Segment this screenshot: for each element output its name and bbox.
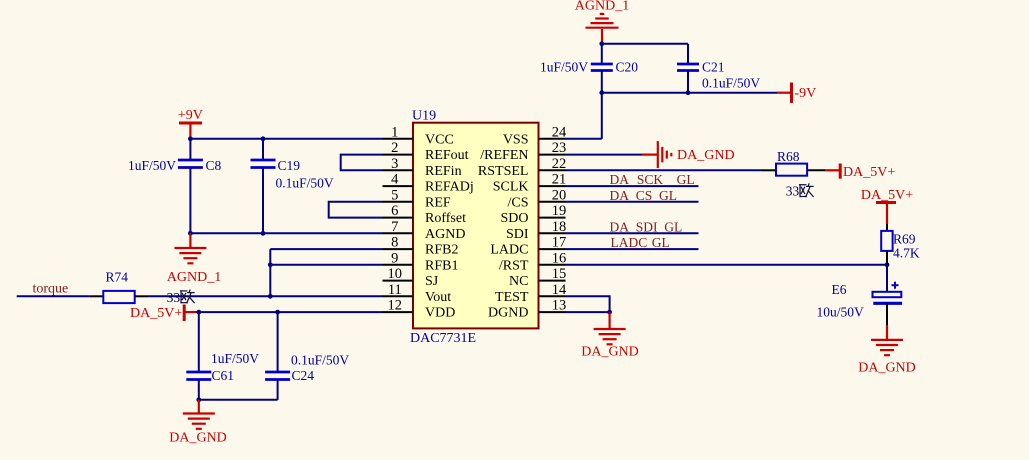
wire E6 top — [886, 265, 888, 292]
wire C61 top — [198, 312, 200, 372]
svg-text:DA_5V+: DA_5V+ — [130, 306, 182, 321]
svg-text:20: 20 — [552, 187, 567, 203]
svg-text:C61: C61 — [212, 368, 235, 383]
svg-text:19: 19 — [552, 203, 567, 219]
pin 8 stub — [383, 248, 414, 250]
wire C24 bottom — [277, 380, 279, 400]
svg-text:DGND: DGND — [488, 306, 528, 321]
node Vout junction — [268, 294, 273, 299]
pin 20 stub — [539, 201, 566, 203]
pin 18 stub — [539, 232, 566, 234]
ground DA_GND (bottom left) — [183, 414, 215, 429]
svg-text:LADC GL: LADC GL — [611, 235, 670, 250]
svg-text:12: 12 — [388, 298, 403, 314]
svg-text:15: 15 — [552, 266, 567, 282]
svg-text:R74: R74 — [106, 270, 129, 285]
wire top rail — [602, 43, 688, 45]
svg-text:24: 24 — [552, 124, 567, 140]
svg-text:SCLK: SCLK — [493, 180, 529, 195]
node C24 top junction — [275, 310, 280, 315]
svg-text:DA SDI GL: DA SDI GL — [610, 219, 683, 234]
svg-text:0.1uF/50V: 0.1uF/50V — [291, 353, 349, 368]
wire C61-C24 bottom rail — [199, 399, 278, 401]
svg-text:VCC: VCC — [425, 132, 454, 147]
wire pin20 CS — [566, 201, 699, 203]
svg-text:DA_GND: DA_GND — [858, 360, 916, 375]
wire C8 bottom — [189, 168, 191, 234]
svg-text:0.1uF/50V: 0.1uF/50V — [276, 176, 334, 191]
wire DGND stub — [608, 312, 610, 328]
svg-text:4: 4 — [391, 172, 399, 188]
svg-text:DA_5V+: DA_5V+ — [861, 188, 913, 203]
svg-text:LADC: LADC — [490, 243, 528, 258]
svg-text:-9V: -9V — [795, 86, 817, 101]
pin 6 stub — [383, 217, 414, 219]
svg-text:5: 5 — [391, 187, 398, 203]
R68 value 33ohm — [786, 183, 813, 198]
wire torque input — [17, 295, 90, 297]
svg-text:13: 13 — [552, 298, 567, 314]
svg-text:AGND_1: AGND_1 — [167, 270, 221, 285]
svg-text:REF: REF — [425, 195, 451, 210]
node C21 bottom junction — [686, 90, 691, 95]
wire C20 top — [601, 44, 603, 64]
svg-text:22: 22 — [552, 156, 567, 172]
pin 15 stub — [539, 280, 566, 282]
svg-text:DA CS GL: DA CS GL — [610, 188, 678, 203]
svg-text:C8: C8 — [206, 158, 222, 173]
op-amp U19 (DAC7731E IC body) — [413, 123, 539, 329]
power -9V bar — [777, 83, 792, 103]
R74 value 33ohm — [167, 290, 195, 305]
power DA_5V+ bar (pin12) — [184, 305, 199, 322]
wire pin23 red stub — [642, 154, 658, 156]
wire REFout-REFin loop — [341, 155, 383, 171]
svg-text:1uF/50V: 1uF/50V — [540, 60, 588, 75]
svg-text:SDO: SDO — [500, 211, 528, 226]
svg-text:21: 21 — [552, 172, 567, 188]
svg-text:1uF/50V: 1uF/50V — [211, 351, 259, 366]
wire pin18 SDI — [566, 232, 699, 234]
svg-text:VDD: VDD — [425, 306, 455, 321]
capacitor C8 — [178, 160, 203, 168]
wire pin22 to R68 — [566, 169, 763, 171]
wire R74 to pin11 — [148, 295, 383, 297]
svg-text:6: 6 — [391, 203, 398, 219]
wire E6 bottom — [886, 303, 888, 325]
wire C21 top — [687, 44, 689, 64]
svg-text:Roffset: Roffset — [425, 211, 466, 226]
wire C8 top — [189, 139, 191, 160]
svg-text:TEST: TEST — [495, 290, 529, 305]
svg-text:1uF/50V: 1uF/50V — [128, 158, 176, 173]
pin 9 stub — [383, 264, 414, 266]
ground AGND_1 (top, flipped) — [586, 14, 619, 28]
wire pin23 — [566, 154, 643, 156]
wire C24 top — [277, 312, 279, 372]
svg-text:14: 14 — [552, 282, 567, 298]
wire bottom rail to -9V — [602, 92, 777, 94]
svg-text:SJ: SJ — [425, 274, 439, 289]
node DGND junction — [607, 310, 612, 315]
svg-text:AGND_1: AGND_1 — [575, 0, 629, 14]
svg-text:RFB2: RFB2 — [425, 243, 458, 258]
svg-text:C20: C20 — [616, 60, 639, 75]
svg-text:2: 2 — [391, 140, 398, 156]
pin 11 stub — [383, 295, 414, 297]
node DA_5V junction — [196, 310, 201, 315]
capacitor C20 — [591, 64, 613, 71]
power DA_5V+ bar (R69) — [876, 203, 896, 225]
svg-text:NC: NC — [509, 274, 528, 289]
ground DA_GND (pin23, rotated) — [658, 141, 672, 168]
svg-text:DA_5V+: DA_5V+ — [843, 165, 895, 180]
capacitor C61 — [186, 372, 211, 380]
capacitor E6 (polarized) — [873, 282, 903, 304]
pin 14 stub — [539, 295, 566, 297]
wire RFB2 horizontal — [270, 248, 382, 250]
svg-text:1: 1 — [391, 124, 398, 140]
svg-text:0.1uF/50V: 0.1uF/50V — [702, 76, 760, 91]
wire C61 bottom — [198, 380, 200, 400]
wire pin24 to riser — [566, 138, 602, 140]
wire pin13 — [566, 311, 610, 313]
svg-text:VSS: VSS — [503, 132, 529, 147]
pin 19 stub — [539, 217, 566, 219]
svg-text:R69: R69 — [893, 231, 916, 246]
wire pin16 to R69 — [566, 264, 888, 266]
svg-text:AGND: AGND — [425, 227, 465, 242]
wire pin17 LADC — [566, 248, 699, 250]
pin 23 stub — [539, 154, 566, 156]
node C61 ground junction — [196, 397, 201, 402]
power DA_5V+ bar (pin22) — [825, 164, 840, 179]
svg-text:4.7K: 4.7K — [893, 246, 920, 261]
svg-text:/RST: /RST — [499, 258, 529, 273]
wire pin21 SCLK — [566, 185, 699, 187]
pin 16 stub — [539, 264, 566, 266]
node +9V junction — [188, 136, 193, 141]
svg-text:DA_GND: DA_GND — [677, 148, 735, 163]
node top rail junction — [599, 41, 604, 46]
resistor R74 — [90, 291, 148, 303]
node AGND junction — [188, 231, 193, 236]
svg-text:9: 9 — [391, 250, 398, 266]
pin 12 stub — [383, 311, 414, 313]
svg-text:DA_GND: DA_GND — [581, 345, 639, 360]
wire AGND_1 stub — [601, 29, 603, 44]
power +9V bar — [179, 123, 202, 139]
capacitor C19 — [251, 160, 276, 168]
svg-text:REFout: REFout — [425, 148, 469, 163]
wire AGND stub — [189, 233, 191, 247]
svg-text:torque: torque — [33, 282, 69, 297]
pin 4 stub — [383, 185, 414, 187]
wire AGND rail to pin7 — [190, 232, 382, 234]
svg-text:33: 33 — [167, 290, 181, 305]
ground AGND_1 (left) — [174, 248, 206, 263]
svg-text:/CS: /CS — [507, 195, 528, 210]
wire DA_5V rail to pin12 — [199, 311, 383, 313]
svg-text:Vout: Vout — [425, 290, 451, 305]
svg-text:18: 18 — [552, 219, 567, 235]
pin 13 stub — [539, 311, 566, 313]
ground DA_GND (DGND) — [594, 329, 626, 344]
svg-text:C24: C24 — [292, 368, 315, 383]
svg-text:E6: E6 — [832, 282, 847, 297]
pin 24 stub — [539, 138, 566, 140]
svg-text:R68: R68 — [777, 149, 800, 164]
svg-text:7: 7 — [391, 219, 398, 235]
svg-text:11: 11 — [388, 282, 402, 298]
wire C19 top — [262, 139, 264, 160]
wire DA_GND stub (bottom left) — [198, 400, 200, 413]
wire pin14 — [566, 296, 610, 312]
pin 2 stub — [383, 154, 414, 156]
node R69-E6 junction — [885, 262, 890, 267]
svg-text:/REFEN: /REFEN — [480, 148, 528, 163]
wire VSS riser — [601, 93, 603, 139]
svg-text:SDI: SDI — [506, 227, 529, 242]
svg-text:C21: C21 — [702, 60, 725, 75]
resistor R68 — [762, 164, 825, 176]
ground DA_GND (E6) — [871, 340, 903, 355]
svg-text:8: 8 — [391, 235, 398, 251]
wire C19 bottom — [262, 168, 264, 234]
resistor R69 — [881, 224, 892, 265]
svg-text:U19: U19 — [412, 109, 436, 124]
svg-text:10u/50V: 10u/50V — [817, 305, 865, 320]
svg-text:16: 16 — [552, 250, 567, 266]
svg-text:23: 23 — [552, 140, 567, 156]
node C19 bottom junction — [261, 231, 266, 236]
pin 22 stub — [539, 169, 566, 171]
svg-text:DAC7731E: DAC7731E — [410, 331, 476, 346]
node C20 bottom junction — [599, 90, 604, 95]
svg-text:DA SCK GL: DA SCK GL — [610, 172, 695, 187]
wire C20 bottom — [601, 71, 603, 93]
pin 3 stub — [383, 169, 414, 171]
svg-text:+9V: +9V — [178, 108, 203, 123]
svg-text:REFADj: REFADj — [425, 180, 474, 195]
pin 5 stub — [383, 201, 414, 203]
wire REF-Roffset loop — [329, 202, 383, 218]
svg-text:RSTSEL: RSTSEL — [478, 164, 529, 179]
wire RFB1 horizontal — [270, 264, 382, 266]
pin 17 stub — [539, 248, 566, 250]
wire E6 ground stub — [886, 325, 888, 339]
wire C21 bottom — [687, 71, 689, 93]
pin 21 stub — [539, 185, 566, 187]
capacitor C24 — [265, 372, 290, 380]
node RFB1 junction — [268, 262, 273, 267]
wire +9V rail to pin1 — [190, 138, 382, 140]
node C19 top junction — [261, 136, 266, 141]
svg-text:10: 10 — [388, 266, 403, 282]
svg-text:C19: C19 — [278, 158, 301, 173]
svg-text:17: 17 — [552, 235, 567, 251]
pin 7 stub — [383, 232, 414, 234]
svg-text:RFB1: RFB1 — [425, 258, 458, 273]
svg-text:REFin: REFin — [425, 164, 462, 179]
svg-text:3: 3 — [391, 156, 398, 172]
svg-text:33: 33 — [786, 183, 800, 198]
wire RFB vertical — [269, 249, 271, 296]
capacitor C21 — [677, 64, 699, 71]
pin 1 stub — [383, 138, 414, 140]
pin 10 stub — [383, 280, 414, 282]
svg-text:DA_GND: DA_GND — [169, 431, 227, 446]
